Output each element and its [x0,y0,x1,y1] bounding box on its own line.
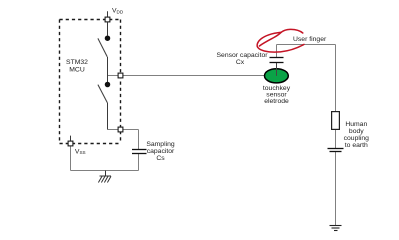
svg-text:body: body [349,128,364,135]
svg-text:capacitor: capacitor [147,148,175,155]
svg-text:Human: Human [345,121,367,128]
svg-text:to earth: to earth [345,142,368,149]
svg-text:MCU: MCU [69,66,85,73]
svg-text:Cx: Cx [236,59,245,66]
svg-text:VDD: VDD [112,8,124,15]
svg-text:STM32: STM32 [66,59,88,66]
svg-text:Cs: Cs [156,155,165,162]
svg-text:Sampling: Sampling [146,141,175,148]
svg-text:VSS: VSS [75,148,86,155]
svg-text:User finger: User finger [293,36,327,43]
svg-text:coupling: coupling [344,135,370,142]
svg-text:eletrode: eletrode [264,98,289,105]
